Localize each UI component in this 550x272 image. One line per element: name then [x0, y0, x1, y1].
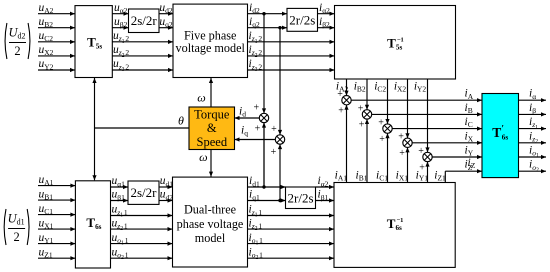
- svg-text:+: +: [398, 132, 404, 143]
- svg-text:Torque: Torque: [194, 108, 230, 122]
- svg-text:+: +: [359, 120, 365, 131]
- svg-text:+: +: [418, 146, 424, 157]
- svg-text:ω: ω: [197, 91, 205, 105]
- svg-text:+: +: [271, 124, 277, 135]
- svg-text:+: +: [271, 147, 277, 158]
- svg-text:2s/2r: 2s/2r: [131, 185, 158, 200]
- svg-text:ω: ω: [199, 150, 207, 164]
- svg-text:Speed: Speed: [197, 135, 228, 149]
- svg-text:model: model: [195, 231, 226, 245]
- svg-text:+: +: [419, 162, 425, 173]
- svg-text:+: +: [378, 118, 384, 129]
- svg-text:+: +: [358, 103, 364, 114]
- svg-text:T6s−1: T6s−1: [387, 216, 404, 232]
- svg-text:2: 2: [13, 230, 19, 244]
- svg-text:+: +: [337, 89, 343, 100]
- svg-text:2r/2s: 2r/2s: [289, 13, 315, 28]
- svg-text:2: 2: [14, 44, 20, 58]
- svg-text:+: +: [399, 148, 405, 159]
- svg-text:T5s−1: T5s−1: [387, 35, 404, 51]
- svg-text:+: +: [338, 106, 344, 117]
- svg-text:phase voltage: phase voltage: [177, 217, 244, 231]
- svg-text:Dual-three: Dual-three: [184, 203, 236, 217]
- svg-text:2s/2r: 2s/2r: [131, 13, 158, 28]
- svg-text:voltage model: voltage model: [176, 41, 246, 55]
- svg-text:+: +: [253, 102, 259, 113]
- svg-text:2r/2s: 2r/2s: [288, 190, 314, 205]
- svg-text:+: +: [255, 124, 261, 135]
- svg-text:&: &: [207, 121, 217, 135]
- svg-text:+: +: [379, 134, 385, 145]
- svg-text:θ: θ: [178, 114, 184, 128]
